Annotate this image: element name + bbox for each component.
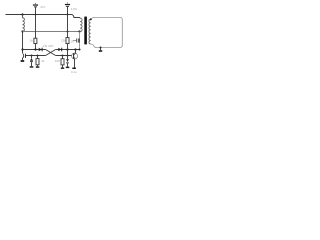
svg-text:1n: 1n: [71, 39, 75, 43]
node secondary top junction: [90, 18, 92, 20]
node rail-R2 junction: [67, 14, 69, 16]
ground G2: [30, 66, 34, 68]
svg-text:22k: 22k: [61, 38, 66, 42]
inductor L1: [23, 15, 25, 32]
node N2-R2 junction: [67, 31, 69, 33]
node riser corner: [79, 49, 81, 51]
node upper-x67 junction: [66, 48, 68, 50]
resistor R1 (x35 box): [35, 15, 37, 39]
resistor R3 (x62.5 box): [62, 56, 64, 59]
wire crossover X: [46, 50, 56, 56]
wire x22 vertical: [22, 32, 24, 54]
ground G4: [61, 67, 64, 69]
node lower-R3 junction: [62, 55, 64, 57]
transformer core: [84, 17, 87, 45]
svg-text:100: 100: [55, 59, 60, 63]
wire upper rail after crossover: [56, 49, 80, 51]
svg-text:47n: 47n: [40, 5, 45, 9]
wire Q lower horizontal (left part): [26, 55, 46, 57]
resistor R2 (x67.5 upper box): [67, 15, 69, 38]
node Q-dot left: [31, 55, 33, 57]
ground G1: [21, 60, 25, 62]
node N2-primary junction: [78, 30, 80, 32]
node secondary ground junction: [100, 47, 102, 49]
transformer primary coil: [80, 18, 82, 32]
node Q-dot right: [37, 55, 39, 57]
wire secondary bottom lead: [91, 44, 120, 48]
capacitor C2 (horizontal plates): [73, 40, 77, 42]
ground GND-A (chassis bars above rail, x=35.5): [33, 3, 38, 15]
node L1 bottom junction: [21, 30, 23, 32]
resistor R4 (x37.5 box): [37, 56, 39, 59]
node collector junction: [74, 48, 76, 50]
transistor Q1: [72, 53, 78, 59]
ground G5: [66, 67, 70, 69]
speaker box: [95, 18, 122, 48]
svg-text:4,5V: 4,5V: [71, 7, 77, 11]
ground G3: [36, 66, 40, 68]
wire collector riser to primary: [79, 32, 81, 50]
ground G7: [100, 48, 102, 51]
diode D2: [58, 48, 61, 52]
svg-text:0,1u: 0,1u: [71, 70, 77, 74]
ground GND-B (chassis bars above rail, x=67.5): [65, 2, 70, 14]
capacitor C4 (electrolytic arrow, x67.5): [67, 50, 69, 60]
node P-R1 junction: [34, 48, 36, 50]
ground G6: [72, 68, 76, 70]
node P-rail left junction: [21, 48, 23, 50]
capacitor C1 (curved plate + bar): [22, 54, 25, 58]
svg-text:1k: 1k: [30, 39, 34, 43]
node lower-x67 junction: [67, 55, 69, 57]
wire P rail (left part): [23, 49, 46, 51]
wire Q lower after crossover: [56, 55, 72, 57]
transformer secondary coil: [89, 19, 91, 44]
wire secondary top lead: [91, 18, 95, 20]
node rail-L1 junction: [21, 13, 23, 15]
diode D1: [39, 48, 42, 52]
capacitor C3 (electrolytic arrow, x31.5): [31, 56, 33, 59]
wire N2 horizontal: [23, 31, 80, 33]
node rail-R1 junction: [35, 14, 37, 16]
wire top rail N1: [6, 15, 80, 18]
svg-text:2N 407: 2N 407: [43, 44, 54, 48]
